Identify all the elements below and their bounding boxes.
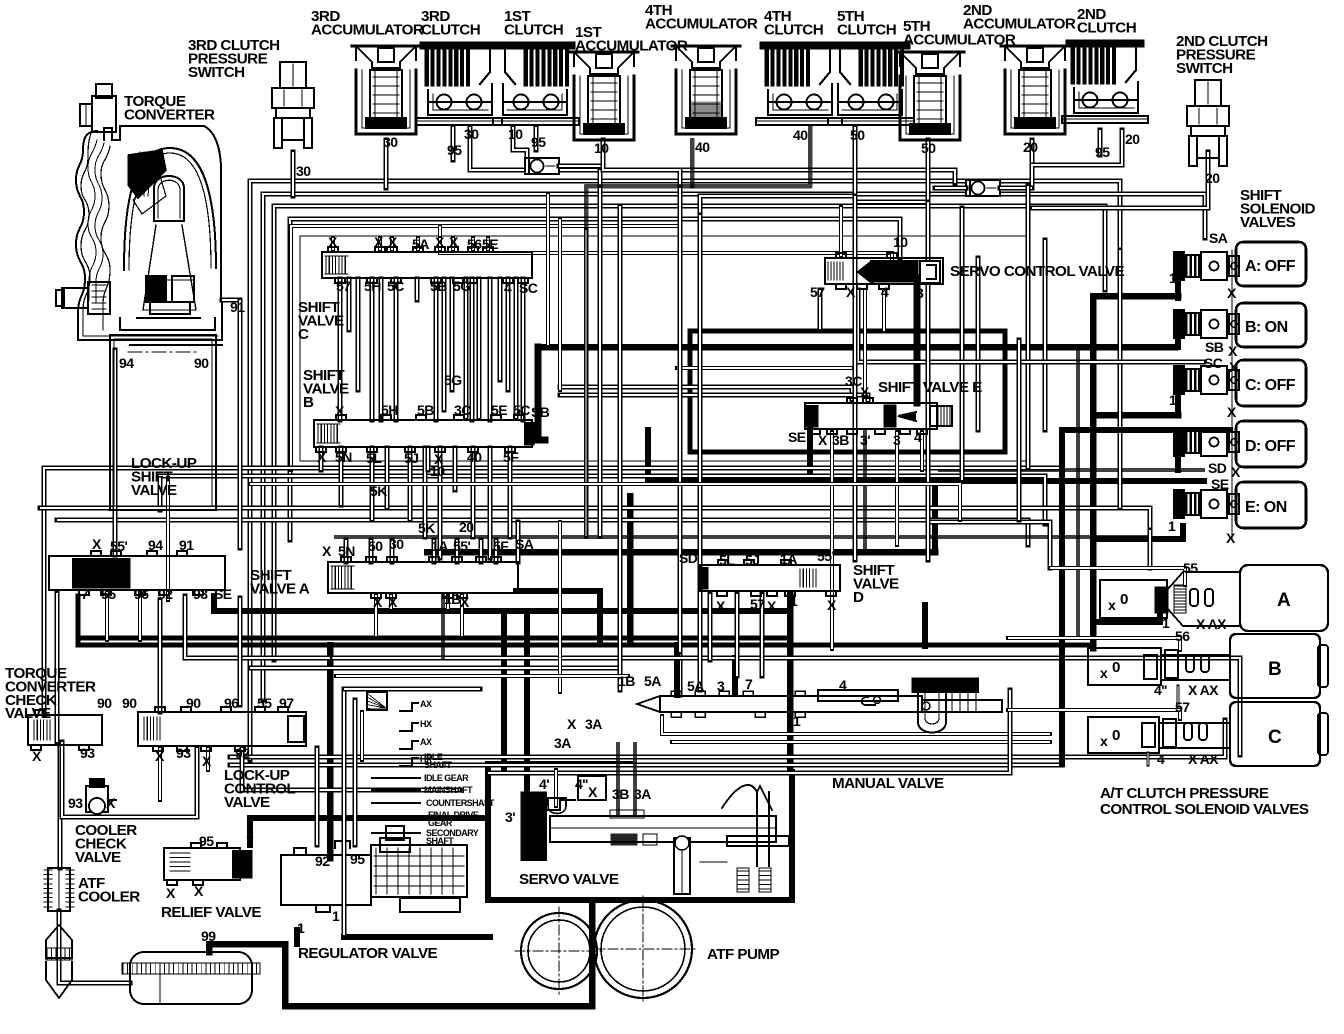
svg-text:MANUAL VALVE: MANUAL VALVE (832, 775, 944, 792)
svg-text:X: X (317, 449, 327, 465)
4th clutch (756, 42, 842, 125)
svg-text:1B: 1B (444, 591, 461, 607)
svg-text:94: 94 (148, 537, 163, 553)
svg-text:99: 99 (201, 928, 216, 944)
torque converter left bolt (56, 282, 110, 314)
solenoid C box (1236, 360, 1306, 406)
wire band y668 (250, 666, 620, 671)
svg-text:X: X (460, 594, 470, 610)
at pressure solenoid C (1088, 702, 1328, 766)
svg-text:5K: 5K (418, 520, 435, 536)
wire 2nd clutch pressure switch 20 (1032, 152, 1208, 208)
svg-text:5E: 5E (491, 402, 507, 418)
torque converter (76, 126, 222, 340)
wire 3rd clutch pressure switch 30 (291, 152, 296, 196)
svg-text:57: 57 (750, 596, 765, 612)
labels numbers (32, 126, 1241, 944)
svg-text:10: 10 (430, 463, 445, 479)
servo valve box (488, 761, 630, 767)
svg-text:92: 92 (315, 853, 330, 869)
regulator gear labels (400, 699, 432, 766)
svg-text:50: 50 (921, 140, 936, 156)
svg-text:X: X (202, 753, 212, 769)
regulator ladder stem (360, 712, 364, 760)
svg-text:97: 97 (279, 695, 294, 711)
svg-text:90: 90 (97, 695, 112, 711)
svg-text:CLUTCH: CLUTCH (1077, 19, 1136, 36)
manual valve (637, 678, 1002, 733)
svg-text:3C: 3C (454, 402, 471, 418)
svg-text:VALVE: VALVE (5, 705, 51, 722)
svg-text:CONTROL SOLENOID VALVES: CONTROL SOLENOID VALVES (1100, 801, 1309, 818)
svg-text:x: x (1100, 665, 1108, 681)
svg-text:55': 55' (110, 538, 127, 554)
svg-text:7: 7 (81, 586, 89, 602)
svg-text:X: X (194, 883, 204, 899)
wire 5th accumulator 50 (855, 140, 928, 202)
wire SE thick line (645, 430, 651, 481)
wire solenoid A 1 thick (1093, 293, 1178, 300)
svg-text:X: X (322, 543, 332, 559)
svg-text:5A: 5A (687, 678, 704, 694)
regulator valve frame (342, 689, 347, 935)
wire band y508 (42, 510, 47, 715)
wire 2nd clutch 20 (1032, 130, 1122, 186)
svg-text:92: 92 (235, 745, 250, 761)
svg-text:A: A (1277, 590, 1291, 611)
svg-text:X: X (567, 716, 577, 732)
svg-text:X AX: X AX (1188, 751, 1219, 767)
svg-text:4: 4 (504, 280, 512, 296)
svg-text:SWITCH: SWITCH (188, 64, 245, 81)
svg-text:ACCUMULATOR: ACCUMULATOR (311, 21, 424, 38)
svg-text:1: 1 (1162, 615, 1170, 631)
wire cooler line (58, 745, 63, 868)
wire 3rd clutch 30 (470, 127, 955, 183)
svg-text:55: 55 (1183, 560, 1198, 576)
atf pump (515, 896, 696, 1002)
svg-text:90: 90 (122, 695, 137, 711)
svg-text:4: 4 (914, 429, 922, 445)
svg-text:30: 30 (296, 163, 311, 179)
wire atf cooler down (59, 911, 130, 983)
wire 1st clutch 95 (534, 127, 539, 150)
svg-text:ACCUMULATOR: ACCUMULATOR (903, 31, 1016, 48)
wire solenoid feed top (440, 226, 892, 262)
lock-up shift valve box (110, 335, 216, 510)
svg-text:IDLE GEAR: IDLE GEAR (424, 773, 469, 783)
shift solenoid E (1174, 490, 1239, 518)
svg-text:X AX: X AX (1188, 682, 1219, 698)
svg-text:SERVO CONTROL VALVE: SERVO CONTROL VALVE (950, 263, 1124, 280)
2nd clutch pressure switch (1187, 80, 1229, 166)
svg-text:GEAR: GEAR (428, 818, 453, 828)
solenoid X drain line (1231, 250, 1233, 540)
svg-text:5F: 5F (503, 449, 519, 465)
solenoid A box (1236, 242, 1306, 286)
shift solenoid C (1174, 366, 1239, 394)
svg-text:55': 55' (817, 548, 834, 564)
torque converter top bolt (80, 84, 116, 132)
svg-text:X: X (374, 234, 384, 250)
wire band y676 (336, 674, 628, 678)
3rd clutch (416, 42, 502, 125)
svg-text:30: 30 (383, 134, 398, 150)
svg-text:95: 95 (199, 833, 214, 849)
svg-text:55: 55 (257, 695, 272, 711)
svg-text:D: D (853, 589, 864, 606)
svg-text:5G: 5G (453, 278, 471, 294)
svg-text:57: 57 (336, 278, 351, 294)
wire thick risers x504 x527 (501, 611, 507, 772)
wire regulator 1 thick (294, 930, 300, 944)
svg-text:4'': 4'' (575, 776, 588, 792)
svg-text:CLUTCH: CLUTCH (764, 21, 823, 38)
svg-text:X: X (388, 594, 398, 610)
svg-text:55: 55 (101, 586, 116, 602)
svg-text:5H: 5H (381, 402, 398, 418)
svg-text:X: X (92, 536, 102, 552)
wire main bus frame 2 (263, 194, 1205, 700)
svg-text:SERVO VALVE: SERVO VALVE (519, 871, 619, 888)
valve block inner box (291, 226, 680, 470)
svg-text:1: 1 (297, 920, 305, 936)
wire lockup control drops (158, 748, 162, 800)
shift valve B (314, 415, 534, 452)
svg-text:95: 95 (1095, 144, 1110, 160)
svg-text:X: X (106, 795, 116, 811)
svg-text:10: 10 (508, 126, 523, 142)
wire servo control to E (818, 290, 823, 329)
wire solenoid E 1 thick (1093, 526, 1183, 539)
svg-text:COUNTERSHAFT: COUNTERSHAFT (426, 798, 495, 808)
1st accumulator (570, 52, 638, 140)
3rd accumulator (352, 46, 420, 134)
regulator valve (281, 826, 467, 912)
wires valve B down (319, 448, 324, 470)
svg-text:C: C (298, 326, 309, 343)
svg-text:ATF PUMP: ATF PUMP (707, 946, 780, 963)
svg-text:SB: SB (531, 404, 550, 420)
shift solenoid D (1174, 428, 1239, 456)
svg-text:1: 1 (1169, 270, 1177, 286)
svg-text:X: X (166, 885, 176, 901)
wire left thick bus B (214, 596, 790, 611)
svg-text:3A: 3A (585, 716, 602, 732)
svg-text:93: 93 (68, 795, 83, 811)
svg-text:5A: 5A (644, 673, 661, 689)
5th accumulator (896, 52, 964, 140)
svg-text:57: 57 (810, 284, 825, 300)
wire left verticals lower (55, 593, 60, 742)
svg-text:4: 4 (839, 677, 847, 693)
wire SB thick line (538, 347, 545, 440)
svg-text:5E: 5E (482, 236, 498, 252)
svg-text:C: OFF: C: OFF (1245, 377, 1296, 394)
svg-text:X: X (435, 234, 445, 250)
svg-text:HX: HX (420, 719, 432, 729)
wire gray vertical x443 (441, 594, 445, 658)
svg-text:5J: 5J (745, 552, 759, 568)
svg-text:5F: 5F (493, 538, 509, 554)
wire band y773 (488, 690, 1010, 773)
atf strainer (122, 952, 260, 1004)
wire band y484 (250, 484, 960, 520)
wire thick SA drop (516, 591, 600, 641)
wire manual valve vert (735, 594, 740, 676)
3rd clutch pressure switch (272, 62, 314, 148)
svg-text:X: X (1228, 343, 1238, 359)
svg-text:ACCUMULATOR: ACCUMULATOR (645, 15, 758, 32)
shift solenoid A (1174, 252, 1239, 280)
wire thick valve D 1 drop (787, 594, 794, 772)
wire regulator feeds (315, 748, 320, 845)
lock-up shift valve (49, 551, 225, 595)
svg-text:SD: SD (679, 550, 698, 566)
svg-text:SE: SE (214, 586, 232, 602)
wires valve A top (344, 540, 349, 562)
svg-text:AX: AX (420, 699, 432, 709)
svg-text:40: 40 (793, 127, 808, 143)
svg-text:95: 95 (447, 142, 462, 158)
svg-text:3A: 3A (634, 786, 651, 802)
wire shift valve E SE port thick (807, 430, 813, 481)
svg-text:X: X (155, 748, 165, 764)
svg-text:5H: 5H (364, 278, 381, 294)
wire 3rd accumulator 30 (384, 140, 389, 188)
svg-text:20: 20 (459, 519, 474, 535)
2nd accumulator (1001, 46, 1069, 134)
wire main bus frame 4 (290, 219, 900, 540)
wire band y765 (230, 763, 1062, 768)
svg-text:3A: 3A (554, 735, 571, 751)
svg-text:SA: SA (1209, 230, 1228, 246)
svg-text:91: 91 (179, 537, 194, 553)
2nd clutch (1062, 40, 1148, 123)
regulator box bottom (344, 934, 490, 940)
svg-text:93: 93 (193, 586, 208, 602)
svg-text:SHAFT: SHAFT (424, 760, 452, 770)
wire mid verticals x548 x560 (546, 194, 550, 345)
svg-text:B: B (1268, 659, 1281, 680)
svg-text:4: 4 (1157, 751, 1165, 767)
wire solenoid C 1 thick (1093, 412, 1178, 419)
svg-text:5L: 5L (719, 552, 735, 568)
svg-text:4': 4' (539, 776, 549, 792)
svg-text:57: 57 (1175, 699, 1190, 715)
svg-text:X AX: X AX (1196, 616, 1227, 632)
svg-text:x: x (1100, 733, 1108, 749)
svg-text:7: 7 (246, 833, 254, 849)
wire thick SE riser x935 (932, 481, 938, 552)
wire band y476 (160, 476, 1045, 524)
relief valve (164, 843, 252, 885)
svg-text:5A: 5A (412, 236, 429, 252)
svg-text:X: X (1227, 285, 1237, 301)
svg-text:X: X (449, 234, 459, 250)
atf cooler (44, 868, 74, 911)
svg-text:VALVE: VALVE (131, 482, 177, 499)
svg-text:94: 94 (119, 355, 134, 371)
5th clutch (828, 42, 914, 125)
svg-text:93: 93 (80, 745, 95, 761)
svg-text:3: 3 (717, 678, 725, 694)
svg-text:SHIFT VALVE E: SHIFT VALVE E (878, 379, 982, 396)
svg-text:X: X (846, 284, 856, 300)
wire right bundles extra (1062, 427, 1230, 433)
svg-text:SD: SD (1208, 460, 1227, 476)
svg-text:91: 91 (230, 299, 245, 315)
svg-text:VALVE: VALVE (224, 794, 270, 811)
svg-text:X: X (1231, 464, 1241, 480)
svg-text:3': 3' (505, 809, 515, 825)
torque converter to lockup wires (130, 344, 222, 346)
wire thick vertical x630 (627, 496, 634, 641)
svg-text:D: OFF: D: OFF (1245, 438, 1296, 455)
svg-text:1: 1 (790, 593, 798, 609)
wire SD port down (708, 594, 713, 660)
svg-text:C: C (1268, 727, 1282, 748)
svg-text:SHAFT: SHAFT (426, 836, 454, 846)
wire 91 (222, 300, 240, 320)
svg-text:92: 92 (158, 586, 173, 602)
wire band y390 (560, 387, 852, 400)
svg-text:1: 1 (1169, 392, 1177, 408)
svg-text:ACCUMULATOR: ACCUMULATOR (575, 37, 688, 54)
svg-text:X: X (32, 748, 42, 764)
svg-text:20: 20 (1023, 139, 1038, 155)
wire 2nd clutch 95 (1098, 130, 1103, 155)
atf filter (46, 925, 72, 998)
svg-text:1A: 1A (431, 538, 448, 554)
wire mid verticals (618, 206, 623, 690)
at pressure solenoid A (1100, 565, 1328, 631)
svg-text:95: 95 (350, 851, 365, 867)
svg-text:A/T CLUTCH PRESSURE: A/T CLUTCH PRESSURE (1100, 785, 1269, 802)
wire solenoid trunk thick vertical (1090, 296, 1097, 648)
svg-text:A: OFF: A: OFF (1245, 258, 1296, 275)
svg-text:SE: SE (788, 429, 806, 445)
wire 1st clutch 10 (513, 127, 527, 160)
svg-text:5J: 5J (404, 450, 418, 466)
svg-text:5C: 5C (387, 278, 404, 294)
svg-text:90: 90 (194, 355, 209, 371)
svg-text:1B: 1B (618, 673, 635, 689)
wire thick y552 (427, 549, 935, 556)
wires valve C to valve B (338, 279, 343, 420)
svg-text:10: 10 (594, 140, 609, 156)
svg-text:CLUTCH: CLUTCH (504, 21, 563, 38)
shift valve D (700, 560, 840, 596)
svg-text:96: 96 (134, 586, 149, 602)
svg-text:5K: 5K (370, 483, 387, 499)
svg-text:96: 96 (224, 695, 239, 711)
wire right verticals (960, 208, 965, 480)
svg-text:X: X (1226, 530, 1236, 546)
svg-text:RELIEF VALVE: RELIEF VALVE (161, 904, 261, 921)
torque converter check valve (28, 710, 102, 750)
svg-text:0: 0 (1112, 727, 1120, 744)
svg-text:E: ON: E: ON (1245, 499, 1287, 516)
wire 5th clutch 50 (700, 127, 855, 215)
lock-up control valve (138, 707, 306, 751)
wire band y468 (44, 468, 1060, 510)
wire 3rd clutch 95 (451, 127, 456, 160)
svg-text:SWITCH: SWITCH (1176, 60, 1233, 77)
wire band y520 (57, 520, 1028, 545)
svg-text:5B: 5B (430, 278, 447, 294)
wire left thick bus A (78, 596, 1093, 645)
svg-text:90: 90 (186, 695, 201, 711)
wire solenoid SC line (858, 290, 1204, 362)
solenoid D box (1236, 421, 1306, 467)
svg-text:1A: 1A (780, 551, 797, 567)
labels solenoid states (1245, 258, 1296, 748)
svg-text:X: X (1227, 404, 1237, 420)
svg-text:X: X (716, 598, 726, 614)
svg-text:AX: AX (420, 737, 432, 747)
svg-text:SC: SC (519, 280, 538, 296)
svg-text:1: 1 (1168, 518, 1176, 534)
wire main bus frame 1 (250, 181, 1120, 760)
wire lockup valve port stubs (105, 592, 109, 640)
svg-text:SE: SE (1211, 476, 1229, 492)
svg-text:MAINSHAFT: MAINSHAFT (424, 785, 473, 795)
svg-text:X: X (860, 384, 870, 400)
svg-text:SC: SC (1204, 355, 1223, 371)
svg-text:20: 20 (1125, 131, 1140, 147)
svg-text:SA: SA (515, 536, 534, 552)
wire band y757 (230, 720, 1225, 757)
svg-text:50: 50 (368, 538, 383, 554)
check valve 2nd accumulator (966, 180, 1000, 196)
wire strainer 99 thick (209, 903, 592, 1006)
svg-text:X: X (373, 594, 383, 610)
svg-text:CLUTCH: CLUTCH (421, 21, 480, 38)
svg-text:56: 56 (1175, 628, 1190, 644)
shift valve A (328, 557, 518, 598)
svg-text:56: 56 (467, 236, 482, 252)
svg-text:X: X (1229, 359, 1239, 375)
svg-text:3B: 3B (832, 432, 849, 448)
wires valve E ports down (830, 432, 834, 649)
svg-text:X: X (328, 234, 338, 250)
svg-text:95: 95 (531, 134, 546, 150)
svg-text:4: 4 (881, 284, 889, 300)
svg-text:REGULATOR VALVE: REGULATOR VALVE (298, 945, 438, 962)
svg-text:1: 1 (332, 908, 340, 924)
svg-text:3B: 3B (612, 786, 629, 802)
svg-text:SB: SB (1205, 339, 1224, 355)
wire servo control valve thick drop (914, 278, 921, 403)
svg-text:X: X (827, 597, 837, 613)
svg-text:20: 20 (1205, 170, 1220, 186)
svg-text:5N: 5N (338, 543, 355, 559)
wire 2nd accumulator 20 (1030, 140, 1035, 186)
svg-text:CONVERTER: CONVERTER (124, 106, 215, 123)
svg-text:40: 40 (467, 449, 482, 465)
svg-text:1: 1 (793, 713, 801, 729)
wire lockup control box (62, 742, 197, 817)
svg-text:VALVES: VALVES (1240, 214, 1296, 231)
svg-text:VALVE A: VALVE A (250, 580, 310, 597)
shift solenoid B (1174, 310, 1239, 338)
shift valve E (805, 398, 937, 434)
svg-text:X: X (588, 784, 598, 800)
wires valve A bottom ports (374, 595, 378, 636)
svg-text:X: X (767, 598, 777, 614)
svg-text:0: 0 (1112, 659, 1120, 676)
